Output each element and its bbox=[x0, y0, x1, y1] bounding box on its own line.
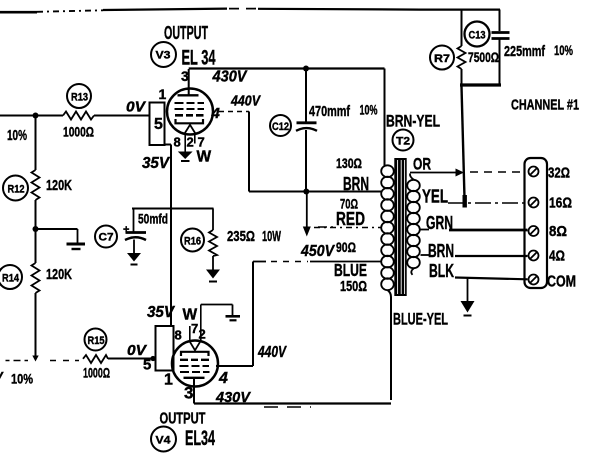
svg-text:2: 2 bbox=[199, 327, 206, 342]
svg-text:V4: V4 bbox=[156, 435, 172, 447]
svg-text:10%: 10% bbox=[360, 102, 378, 118]
svg-text:C7: C7 bbox=[99, 232, 114, 244]
svg-text:32Ω: 32Ω bbox=[548, 165, 570, 182]
svg-text:3: 3 bbox=[184, 384, 193, 403]
svg-text:430V: 430V bbox=[212, 69, 248, 86]
svg-text:10%: 10% bbox=[554, 42, 573, 58]
svg-text:R16: R16 bbox=[184, 236, 201, 248]
svg-text:2: 2 bbox=[187, 135, 194, 150]
svg-text:150Ω: 150Ω bbox=[340, 278, 367, 295]
svg-text:440V: 440V bbox=[230, 94, 261, 110]
svg-text:1: 1 bbox=[164, 372, 173, 389]
svg-text:GRN: GRN bbox=[426, 213, 453, 233]
svg-text:R14: R14 bbox=[2, 273, 20, 285]
svg-text:1000Ω: 1000Ω bbox=[63, 124, 94, 140]
svg-text:130Ω: 130Ω bbox=[336, 155, 362, 171]
svg-text:7500Ω: 7500Ω bbox=[468, 49, 499, 65]
svg-text:90Ω: 90Ω bbox=[336, 239, 356, 255]
svg-text:470mmf: 470mmf bbox=[309, 103, 351, 120]
svg-text:T2: T2 bbox=[396, 136, 410, 148]
svg-text:235Ω: 235Ω bbox=[227, 228, 255, 245]
svg-text:V3: V3 bbox=[156, 50, 171, 62]
svg-text:R7: R7 bbox=[434, 53, 450, 65]
svg-text:5: 5 bbox=[154, 116, 163, 133]
svg-text:OUTPUT: OUTPUT bbox=[164, 23, 208, 43]
svg-text:EL34: EL34 bbox=[185, 427, 215, 450]
svg-text:V: V bbox=[0, 369, 4, 384]
svg-text:4: 4 bbox=[218, 370, 228, 387]
svg-text:C12: C12 bbox=[272, 121, 289, 133]
svg-text:8: 8 bbox=[175, 328, 182, 343]
svg-text:10%: 10% bbox=[7, 127, 27, 144]
svg-text:+: + bbox=[123, 224, 129, 236]
svg-text:120K: 120K bbox=[46, 266, 72, 283]
svg-text:OR: OR bbox=[413, 155, 431, 174]
svg-text:8: 8 bbox=[174, 135, 181, 150]
svg-text:BLUE: BLUE bbox=[334, 260, 367, 280]
svg-text:16Ω: 16Ω bbox=[549, 195, 572, 212]
svg-text:YEL: YEL bbox=[422, 187, 448, 207]
svg-text:R13: R13 bbox=[71, 92, 88, 104]
svg-text:0V: 0V bbox=[127, 343, 147, 359]
svg-text:COM: COM bbox=[547, 274, 576, 291]
svg-text:BLK: BLK bbox=[429, 261, 454, 281]
svg-text:450V: 450V bbox=[300, 243, 335, 260]
svg-text:3: 3 bbox=[181, 68, 189, 84]
svg-text:W: W bbox=[197, 149, 212, 166]
svg-text:35V: 35V bbox=[142, 155, 171, 172]
svg-text:BRN: BRN bbox=[343, 174, 369, 194]
svg-text:CHANNEL #1: CHANNEL #1 bbox=[511, 97, 579, 114]
svg-text:50mfd: 50mfd bbox=[138, 211, 168, 227]
svg-text:10W: 10W bbox=[262, 228, 282, 245]
svg-text:225mmf: 225mmf bbox=[504, 43, 546, 60]
svg-text:7: 7 bbox=[198, 135, 205, 150]
svg-text:5: 5 bbox=[143, 357, 151, 374]
svg-text:BRN: BRN bbox=[428, 241, 454, 261]
svg-text:8Ω: 8Ω bbox=[549, 223, 567, 240]
svg-text:BLUE-YEL: BLUE-YEL bbox=[393, 310, 448, 329]
svg-text:4: 4 bbox=[211, 105, 221, 122]
svg-text:4Ω: 4Ω bbox=[549, 248, 565, 265]
svg-text:EL 34: EL 34 bbox=[182, 47, 216, 70]
svg-text:1000Ω: 1000Ω bbox=[83, 365, 110, 381]
svg-text:RED: RED bbox=[336, 209, 365, 229]
svg-text:10%: 10% bbox=[11, 371, 33, 387]
svg-text:120K: 120K bbox=[46, 177, 72, 194]
svg-text:R15: R15 bbox=[88, 335, 105, 347]
svg-text:OUTPUT: OUTPUT bbox=[160, 411, 206, 428]
svg-text:430V: 430V bbox=[215, 389, 252, 406]
svg-text:R12: R12 bbox=[8, 184, 25, 196]
svg-text:35V: 35V bbox=[147, 304, 176, 321]
svg-text:7: 7 bbox=[191, 321, 198, 336]
svg-text:1: 1 bbox=[159, 86, 167, 102]
svg-text:0V: 0V bbox=[126, 100, 146, 116]
svg-text:C13: C13 bbox=[469, 30, 486, 42]
svg-text:440V: 440V bbox=[257, 344, 287, 361]
svg-text:BRN-YEL: BRN-YEL bbox=[386, 112, 440, 131]
